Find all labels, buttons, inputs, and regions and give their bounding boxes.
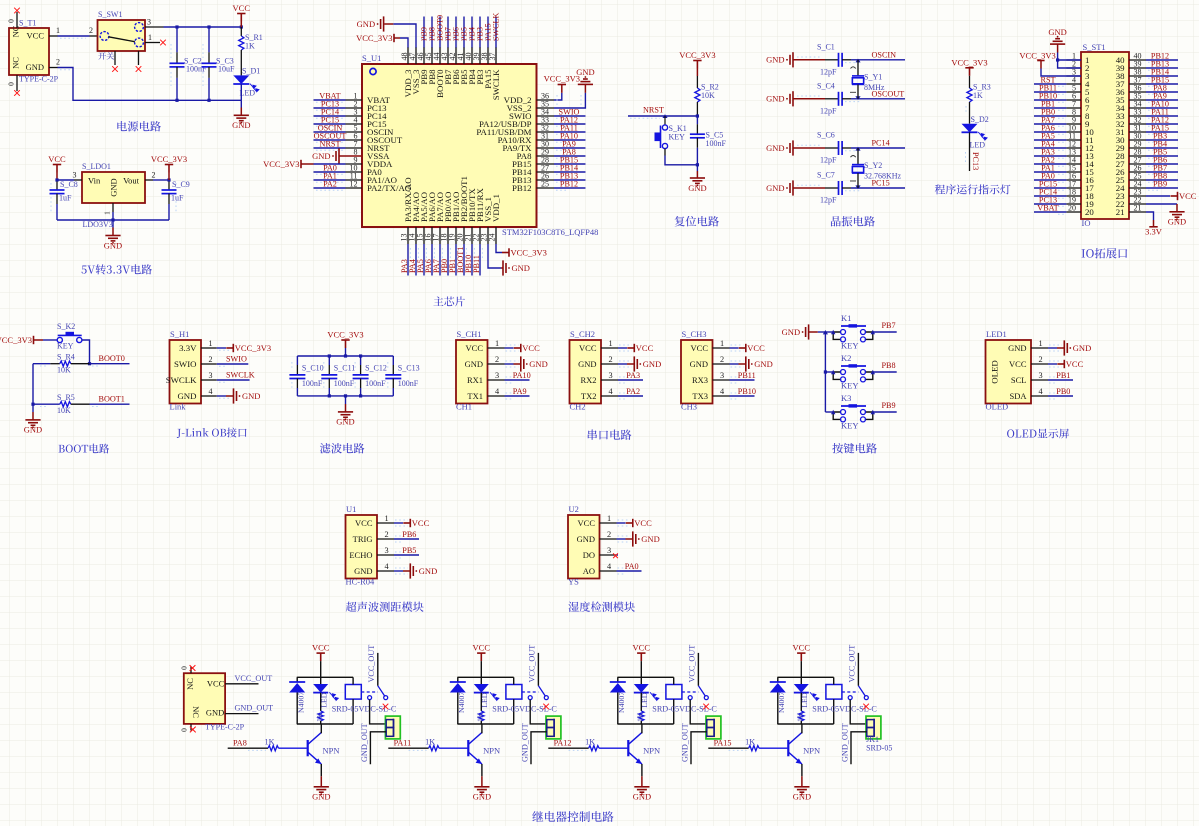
svg-text:N4007: N4007	[777, 692, 786, 713]
svg-text:GND: GND	[633, 792, 651, 802]
wire/net PA8	[1146, 91, 1178, 93]
wire/net SWIO	[217, 363, 249, 365]
svg-text:1: 1	[720, 339, 724, 348]
wire/net PB5	[1146, 155, 1178, 157]
wire/net PA12	[1146, 123, 1178, 125]
wire/net PA2	[1034, 163, 1066, 165]
no-connect X on relay NC contact	[383, 704, 389, 710]
base resistor 1K	[429, 746, 440, 751]
svg-text:VCC: VCC	[634, 518, 652, 528]
ground symbol LDO	[105, 236, 120, 241]
wire resistor to base	[759, 747, 787, 749]
wire/net RST	[1034, 83, 1066, 85]
wire to GND symbol	[618, 363, 627, 365]
svg-text:TX1: TX1	[467, 391, 483, 401]
key S_K1	[664, 116, 666, 125]
wire/net PB15	[554, 163, 586, 165]
svg-text:GND: GND	[577, 534, 595, 544]
svg-text:1K: 1K	[476, 712, 485, 722]
capacitor S_C13 100nF	[392, 356, 394, 365]
svg-text:PC13: PC13	[971, 152, 980, 170]
svg-text:10K: 10K	[57, 366, 71, 375]
S_SW1 value	[98, 52, 114, 60]
wire GND_OUT from terminal pin 2	[691, 732, 707, 765]
svg-text:NPN: NPN	[803, 746, 820, 756]
ground symbol power circuit	[234, 115, 249, 120]
svg-text:3: 3	[609, 371, 613, 380]
wire to GND symbol	[730, 363, 739, 365]
svg-text:2: 2	[495, 355, 499, 364]
wire/net PB5 (top)	[463, 17, 465, 48]
svg-text:1: 1	[148, 33, 152, 42]
wire VSS_1 to GND symbol	[488, 244, 501, 268]
svg-text:GND: GND	[1048, 27, 1066, 37]
wire Vout pin2 to VCC_3V3	[145, 179, 153, 181]
svg-text:S_CH1: S_CH1	[457, 329, 482, 339]
svg-text:STM32F103C8T6_LQFP48: STM32F103C8T6_LQFP48	[502, 227, 598, 237]
relay LED series resistor 1K	[640, 693, 642, 711]
wire collector to rail	[641, 724, 643, 733]
junction NRST/key	[662, 114, 667, 118]
wire relay common to VCC_OUT	[697, 653, 699, 686]
base resistor 1K	[749, 746, 760, 751]
relay frame top rail	[457, 676, 513, 678]
svg-text:1: 1	[209, 339, 213, 348]
resistor S_R1 1K	[240, 27, 242, 36]
wire/net VBAT	[1034, 211, 1066, 213]
wire to GND symbol	[112, 220, 114, 228]
svg-text:2: 2	[209, 355, 213, 364]
svg-text:PA0: PA0	[625, 562, 639, 571]
wire to GND boot	[32, 404, 34, 412]
wire VDD_3 to VCC_3V3 flag	[400, 38, 408, 48]
wire/net PB1	[1048, 379, 1073, 381]
svg-text:S_H1: S_H1	[170, 329, 189, 339]
svg-text:12pF: 12pF	[820, 67, 837, 76]
power flag VCC_3V3 indicator	[965, 68, 973, 76]
svg-text:1: 1	[56, 26, 60, 35]
svg-text:100nF: 100nF	[302, 379, 323, 388]
svg-text:VCC: VCC	[412, 518, 430, 528]
svg-text:PA8: PA8	[233, 739, 247, 748]
svg-text:GND: GND	[576, 67, 594, 77]
svg-text:GND: GND	[766, 183, 784, 193]
wire to GND symbol	[394, 570, 403, 572]
title: BOOT circuit	[59, 444, 110, 454]
wire VDD_1 to VCC_3V3	[496, 244, 502, 253]
Type-C power connector (relay section)	[184, 673, 225, 724]
svg-text:10uF: 10uF	[218, 65, 235, 74]
svg-text:10K: 10K	[57, 406, 71, 415]
wire/net input PA12	[548, 747, 588, 749]
svg-text:Link: Link	[170, 402, 187, 412]
svg-text:4: 4	[209, 387, 213, 396]
wire gnd to cap S_C7	[793, 187, 825, 189]
svg-text:GND: GND	[24, 425, 42, 435]
svg-text:GND: GND	[690, 359, 708, 369]
wire to GND symbol	[505, 363, 514, 365]
base resistor 1K	[268, 746, 279, 751]
NPN transistor	[307, 740, 309, 756]
svg-text:SWCLK: SWCLK	[492, 13, 501, 41]
wire GND_OUT from terminal pin 2	[531, 732, 547, 765]
no-connect X on relay NC contact	[703, 704, 709, 710]
svg-text:1: 1	[609, 339, 613, 348]
relay LED series resistor 1K	[800, 693, 802, 711]
flyback diode 1N4007	[457, 677, 459, 682]
relay LED	[320, 677, 322, 684]
svg-text:VCC: VCC	[1009, 359, 1027, 369]
flyback diode 1N4007	[617, 677, 619, 682]
ground symbol above pin 35 (inverted)	[578, 79, 593, 84]
wire/net NRST	[314, 147, 346, 149]
ground symbol relay	[634, 787, 649, 792]
wire/net PB0	[1048, 395, 1073, 397]
svg-text:1K: 1K	[245, 42, 255, 51]
svg-text:GND: GND	[473, 792, 491, 802]
wire emitter to gnd	[801, 764, 803, 776]
ground symbol	[633, 531, 636, 546]
svg-text:GND: GND	[109, 178, 119, 196]
svg-text:VCC_3V3: VCC_3V3	[263, 159, 299, 169]
junction NRST/R2/C5	[696, 114, 699, 117]
capacitor S_C3 10uF	[208, 27, 210, 52]
wire T1 GND pin2 down and right to bottom rail	[49, 67, 58, 69]
capacitor S_C10 100nF	[296, 356, 298, 365]
no-connect X top pin	[14, 8, 20, 14]
wire/net PA3	[618, 379, 643, 381]
key K3 actuator bar	[841, 405, 866, 407]
svg-text:S_C12: S_C12	[365, 364, 387, 373]
title: main chip	[433, 296, 465, 306]
wire/net PA1	[314, 179, 346, 181]
wire/net PB1	[1034, 107, 1066, 109]
svg-text:K1: K1	[841, 313, 851, 323]
svg-text:GND: GND	[641, 534, 659, 544]
junction LDO gnd	[111, 218, 114, 221]
power flag VCC_3V3 LDO output	[165, 165, 173, 173]
wire key K3 to net PB9	[873, 411, 897, 413]
svg-text:3.3V: 3.3V	[1145, 227, 1163, 237]
svg-text:1: 1	[495, 339, 499, 348]
wire/net PB8 (top)	[431, 17, 433, 48]
svg-text:S_CH3: S_CH3	[682, 329, 707, 339]
pin 0 bottom of S_T1	[16, 75, 18, 91]
svg-text:GND: GND	[688, 183, 706, 193]
J-Link header S_H1 body	[170, 340, 202, 404]
wire/net PB11	[730, 379, 755, 381]
SW1 bottom pin stubs with no-connect	[114, 51, 116, 65]
svg-text:VCC_3V3: VCC_3V3	[544, 74, 580, 84]
ground symbol relay	[314, 787, 329, 792]
wire/net SWIO	[554, 115, 586, 117]
svg-text:VCC_OUT: VCC_OUT	[528, 645, 537, 683]
svg-text:8MHz: 8MHz	[864, 83, 885, 92]
wire VSS_2 up to GND	[554, 93, 585, 108]
svg-text:SWIO: SWIO	[226, 355, 247, 364]
svg-text:3: 3	[73, 171, 77, 180]
wire/net PA6	[1034, 131, 1066, 133]
junction at C3 bottom	[207, 99, 210, 102]
wire/net PA6 (bottom)	[431, 244, 433, 276]
svg-text:PB5: PB5	[402, 546, 416, 555]
wire pin4 to GND	[217, 395, 226, 397]
no-connect X bottom pin	[14, 90, 20, 96]
title: IO expansion port	[1082, 248, 1128, 258]
wire GND to pins 1,2	[1057, 44, 1059, 52]
svg-text:S_ST1: S_ST1	[1083, 42, 1106, 52]
svg-text:NPN: NPN	[643, 746, 660, 756]
svg-text:VCC_3V3: VCC_3V3	[151, 154, 187, 164]
svg-text:SRD-05VDC-SL-C: SRD-05VDC-SL-C	[332, 705, 397, 714]
svg-text:GND: GND	[242, 391, 260, 401]
wire VSS_3 to GND symbol	[393, 24, 416, 48]
svg-text:GND: GND	[206, 708, 224, 718]
pin stub top with no-connect	[190, 667, 192, 674]
relay contact dashed link	[522, 691, 539, 693]
flyback diode 1N4007	[777, 677, 779, 682]
svg-text:1: 1	[1039, 339, 1043, 348]
crystal S_Y2 32.768KHz	[857, 148, 859, 165]
wire cap to junction and net OSCOUT	[842, 98, 851, 100]
relay contact switch	[528, 696, 548, 700]
title: OLED display	[1007, 429, 1069, 439]
wire/net SWCLK	[217, 379, 250, 381]
svg-text:GND: GND	[1008, 343, 1026, 353]
wire gnd to cap S_C4	[793, 98, 825, 100]
ground symbol	[1064, 340, 1067, 355]
wire/net PB13	[554, 179, 586, 181]
wire/net OSCIN	[314, 131, 346, 133]
wire resistor to base	[439, 747, 467, 749]
wire/net input PA8	[228, 747, 268, 749]
svg-text:3.3V: 3.3V	[179, 343, 197, 353]
junction at C2 top	[175, 25, 178, 28]
junction C5 bottom	[696, 163, 699, 166]
wire/net GND_OUT	[225, 713, 258, 715]
wire key K2 to BOOT0 node	[82, 340, 90, 364]
filter bottom rail	[297, 395, 393, 397]
wire/net PB11 (bottom)	[479, 244, 481, 276]
wire/net PB0 (bottom)	[447, 244, 449, 276]
wire/net PA11	[554, 131, 586, 133]
svg-text:S_C11: S_C11	[334, 364, 356, 373]
svg-text:3: 3	[209, 371, 213, 380]
svg-text:VCC_OUT: VCC_OUT	[848, 645, 857, 683]
svg-text:S_C7: S_C7	[817, 171, 835, 180]
terminal block green connector	[706, 716, 721, 739]
wire/net PB1 (bottom)	[455, 244, 457, 276]
wire to VCC flag	[394, 522, 403, 524]
svg-text:3: 3	[495, 371, 499, 380]
connector S_CH2 body	[570, 340, 602, 404]
svg-text:GND_OUT: GND_OUT	[680, 723, 689, 762]
wire/net PC13	[1034, 203, 1066, 205]
svg-text:0: 0	[7, 19, 16, 23]
title: crystal circuit	[831, 216, 875, 226]
svg-text:TYPE-C-2P: TYPE-C-2P	[19, 75, 59, 84]
wire/net PB6 (top)	[455, 17, 457, 48]
relay contact switch	[688, 696, 708, 700]
svg-text:PB7: PB7	[882, 321, 896, 330]
svg-text:32.768KHz: 32.768KHz	[864, 172, 902, 181]
wire/net PA9	[505, 395, 530, 397]
svg-text:3: 3	[607, 546, 611, 555]
wire pin 23 to VCC flag	[1146, 195, 1170, 197]
junction PC15/crystal Y2	[855, 185, 860, 189]
wire cap to junction and net PC15	[842, 187, 851, 189]
key K2 actuator bar	[841, 365, 866, 367]
wire/net VBAT	[314, 99, 346, 101]
junction at C2 bottom	[175, 99, 178, 102]
junction at C3 top	[207, 25, 210, 28]
switch S_SW1	[98, 20, 146, 51]
connector U1 body	[346, 515, 378, 579]
wire/net PB9	[1146, 187, 1178, 189]
svg-text:PB10: PB10	[738, 387, 756, 396]
svg-text:PB12: PB12	[560, 180, 578, 189]
wire/net PB10	[1034, 99, 1066, 101]
junction gnd pin1	[1056, 58, 1059, 61]
svg-text:VCC_OUT: VCC_OUT	[688, 645, 697, 683]
svg-text:100nF: 100nF	[334, 379, 355, 388]
svg-text:3: 3	[147, 18, 151, 27]
wire/net PB12	[1146, 59, 1178, 61]
capacitor S_C7 12pF	[839, 181, 843, 195]
wire/net PB12	[554, 187, 586, 189]
svg-text:2: 2	[607, 530, 611, 539]
svg-text:TX3: TX3	[692, 391, 708, 401]
wire gnd to cap S_C1	[793, 59, 825, 61]
svg-text:1uF: 1uF	[59, 194, 72, 203]
wire pin 21 to 3.3V flag	[1146, 212, 1154, 220]
svg-text:PB1: PB1	[1056, 371, 1070, 380]
svg-text:100nF: 100nF	[706, 139, 727, 148]
svg-text:VCC: VCC	[578, 518, 596, 528]
wire relay NO contact to terminal pin 1	[850, 700, 867, 724]
relay frame top rail	[297, 676, 353, 678]
wire/net PC13	[314, 107, 346, 109]
svg-text:CH2: CH2	[570, 402, 586, 412]
LDO regulator S_LDO1	[82, 172, 145, 203]
title: 5V to 3.3V circuit	[81, 264, 151, 274]
svg-text:1K: 1K	[425, 738, 435, 747]
wire/net PA9	[554, 147, 586, 149]
svg-text:GND: GND	[766, 94, 784, 104]
wire key K2 to net PB8	[873, 371, 897, 373]
wire bus to key K1	[825, 331, 833, 333]
svg-text:2: 2	[609, 355, 613, 364]
title: power circuit	[117, 121, 161, 131]
capacitor S_C1 12pF	[839, 53, 843, 67]
wire ground rail of LDO stage	[57, 219, 169, 221]
capacitor S_C9 1uF	[168, 180, 170, 182]
wire bus to key K2	[825, 371, 833, 373]
svg-text:2: 2	[385, 530, 389, 539]
wire Vin pin3	[57, 179, 74, 181]
svg-text:1K: 1K	[265, 738, 275, 747]
connector S_CH1 body	[456, 340, 488, 404]
svg-text:ECHO: ECHO	[349, 550, 372, 560]
wire/net PA10	[505, 379, 530, 381]
svg-text:PB9: PB9	[882, 401, 896, 410]
svg-text:100nF: 100nF	[365, 379, 386, 388]
svg-text:TX2: TX2	[581, 391, 597, 401]
svg-text:SWCLK: SWCLK	[491, 69, 501, 100]
terminal block green connector JK1	[866, 716, 881, 739]
svg-text:N4007: N4007	[297, 692, 306, 713]
svg-text:GND_OUT: GND_OUT	[520, 723, 529, 762]
terminal block green connector	[546, 716, 561, 739]
wire cap to junction and net PC14	[842, 147, 851, 149]
wire relay NO contact to terminal pin 1	[690, 700, 707, 724]
svg-text:GND: GND	[1073, 343, 1091, 353]
wire collector to rail	[801, 724, 803, 733]
svg-text:SRD-05VDC-SL-C: SRD-05VDC-SL-C	[652, 705, 717, 714]
svg-text:VCC: VCC	[579, 343, 597, 353]
junction BOOT1/gnd	[31, 403, 34, 406]
svg-text:U1: U1	[346, 504, 356, 514]
wire/net PA2	[314, 187, 346, 189]
wire/net PB6	[1146, 163, 1178, 165]
svg-text:12pF: 12pF	[820, 156, 837, 165]
wire to VCC flag	[1048, 363, 1057, 365]
wire LDO GND pin1 down	[112, 203, 114, 212]
wire to VCC flag	[730, 347, 739, 349]
svg-text:CH3: CH3	[681, 402, 697, 412]
capacitor S_C4 12pF	[839, 92, 843, 106]
svg-text:YS: YS	[568, 577, 579, 587]
wire/net PA2	[618, 395, 643, 397]
title: relay control circuit	[532, 811, 613, 822]
svg-text:S_C6: S_C6	[817, 131, 835, 140]
svg-text:N4007: N4007	[457, 692, 466, 713]
svg-text:1: 1	[607, 514, 611, 523]
relay frame bottom rail	[457, 723, 513, 725]
relay frame top rail	[617, 676, 673, 678]
svg-text:GND: GND	[419, 566, 437, 576]
wire GND_OUT from terminal pin 2	[370, 732, 386, 765]
ground symbol boot	[25, 420, 40, 425]
junction Vin/C8	[55, 178, 58, 181]
svg-text:KEY: KEY	[669, 133, 686, 142]
resistor S_R3 1K	[969, 76, 971, 88]
svg-text:S_C10: S_C10	[302, 364, 324, 373]
wire to VCC flag	[618, 347, 627, 349]
svg-text:OSCIN: OSCIN	[872, 51, 897, 60]
wire/net OSCOUT	[314, 139, 346, 141]
svg-text:10K: 10K	[701, 91, 715, 100]
svg-text:NRST: NRST	[320, 140, 341, 149]
svg-text:VBAT: VBAT	[1037, 204, 1058, 213]
svg-text:S_D1: S_D1	[242, 67, 260, 76]
wire D1 to GND	[240, 100, 242, 107]
svg-text:PB8: PB8	[882, 361, 896, 370]
wire/net PC15	[314, 123, 346, 125]
svg-text:0: 0	[180, 728, 189, 732]
svg-text:TYPE-C-2P: TYPE-C-2P	[205, 723, 245, 732]
svg-text:DO: DO	[583, 550, 595, 560]
svg-text:100nF: 100nF	[398, 379, 419, 388]
wire to GND symbol	[1048, 347, 1057, 349]
NPN transistor	[787, 740, 789, 756]
wire/net PB4 (top)	[471, 17, 473, 48]
wire VDD_2 up to VCC_3V3	[554, 93, 562, 100]
relay LED series resistor 1K	[480, 693, 482, 711]
capacitor S_C5 100nF	[696, 116, 698, 124]
wire/net PC14	[314, 115, 346, 117]
power flag VCC relay	[317, 653, 325, 661]
